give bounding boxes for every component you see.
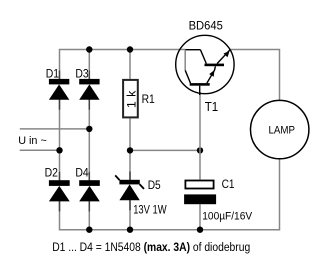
diode D1: [49, 79, 69, 100]
node: top rail / D3 junction: [86, 46, 92, 52]
wire: D3 cathode to top rail: [88, 50, 90, 79]
resistor R1: [123, 80, 138, 118]
lamp LA1: [251, 100, 309, 158]
wire: D4 bottom to bottom rail: [88, 201, 90, 229]
svg-text:100µF/16V: 100µF/16V: [202, 210, 252, 222]
svg-text:D1: D1: [46, 67, 60, 81]
svg-text:U in ~: U in ~: [18, 135, 47, 147]
wire: transistor base down to C1 top: [199, 92, 201, 180]
diode D2: [49, 180, 70, 201]
svg-text:LAMP: LAMP: [269, 124, 296, 136]
svg-text:C1: C1: [222, 177, 235, 191]
node: top rail / R1 junction: [127, 46, 133, 52]
wire: U in upper lead: [20, 128, 90, 130]
svg-text:D4: D4: [75, 165, 89, 179]
svg-text:BD645: BD645: [189, 21, 223, 33]
node: R1/D5 junction: [127, 147, 133, 153]
wire: C1 bottom to bottom rail: [199, 204, 201, 230]
node: bottom rail / D5 junction: [127, 227, 133, 233]
transistor T1 (BD645 darlington): [176, 35, 234, 95]
wire: zener node link to base/C1 node: [130, 149, 200, 151]
wire: bottom rail from D2 to lamp: [60, 159, 280, 230]
node: lower lead / D1-D2 junction: [56, 147, 62, 153]
diode D3: [79, 79, 99, 100]
diode D4: [79, 180, 100, 201]
node: bottom rail / D4 junction: [86, 227, 92, 233]
svg-text:D1 ... D4 = 1N5408 (max. 3A) o: D1 ... D4 = 1N5408 (max. 3A) of diodebru…: [52, 240, 250, 254]
wire: emitter rail right to lamp top: [230, 50, 279, 101]
wire: D3-D4 column: [88, 100, 90, 181]
svg-text:R1: R1: [142, 92, 155, 106]
node: base/C1 junction: [197, 147, 203, 153]
svg-text:D2: D2: [45, 165, 59, 179]
svg-text:D5: D5: [148, 178, 161, 192]
svg-text:T1: T1: [205, 100, 219, 114]
wire: D5 bottom to bottom rail: [129, 200, 131, 230]
wire: top rail from D1 top up and right to transistor: [60, 50, 186, 79]
wire: R1 top to top rail: [129, 50, 131, 79]
zener diode D5: [115, 175, 144, 200]
diode lead stubs (dark): [60, 71, 131, 212]
wire: R1 bottom to D5 top: [129, 118, 131, 179]
node: bottom rail / C1 junction: [197, 227, 203, 233]
wire: D1-D2 column: [59, 100, 61, 181]
node: upper lead / D3-D4 junction: [86, 126, 92, 132]
capacitor C1: [184, 181, 216, 205]
wire: U in lower lead: [20, 149, 60, 151]
svg-text:D3: D3: [75, 67, 89, 81]
svg-text:13V 1W: 13V 1W: [133, 203, 167, 217]
